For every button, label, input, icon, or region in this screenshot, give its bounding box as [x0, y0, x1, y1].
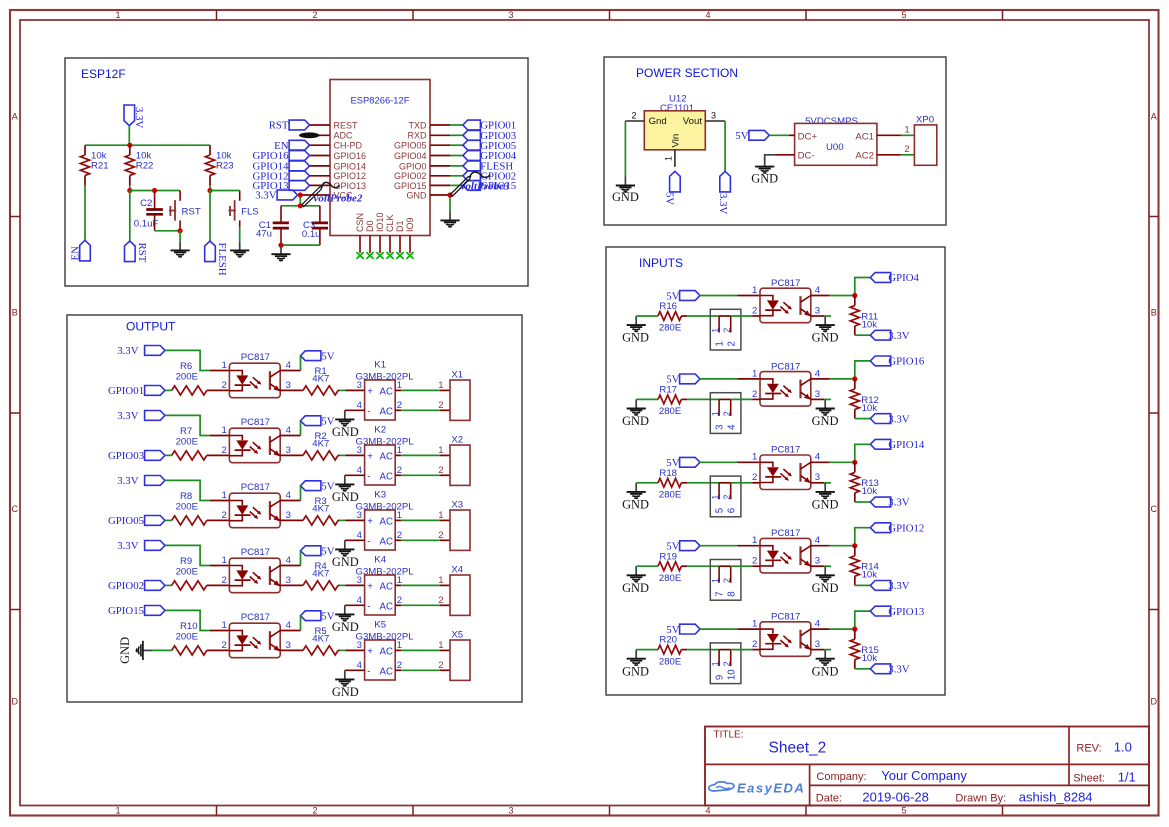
svg-text:X4: X4: [451, 564, 463, 575]
wire R21 to EN: [84, 186, 86, 241]
net flag 3.3V top: [124, 105, 135, 126]
connector X2: [438, 434, 470, 485]
svg-text:4: 4: [727, 424, 738, 430]
wire GPIO02 to R: [165, 584, 172, 586]
wire Vout: [724, 121, 726, 171]
svg-text:PC817: PC817: [241, 612, 270, 623]
svg-text:X1: X1: [451, 369, 463, 380]
svg-text:2: 2: [397, 595, 402, 606]
net flag FLESH: [205, 241, 216, 262]
wire cap rail bottom: [281, 244, 320, 246]
wire GPIO15 to opto pin1: [165, 610, 210, 630]
resistor R22 10k: [125, 145, 153, 185]
wire R to relay: [338, 649, 340, 651]
svg-text:AC: AC: [380, 471, 393, 482]
net flag GPIO02: [145, 581, 165, 591]
svg-text:GND: GND: [812, 331, 839, 345]
resistor R20 280E: [658, 645, 681, 654]
wire gnd to R: [636, 315, 658, 317]
resistor R16 280E: [658, 312, 681, 321]
svg-text:4: 4: [357, 595, 363, 606]
svg-text:Drawn By:: Drawn By:: [955, 793, 1006, 805]
no-connect X pin 390: [386, 252, 393, 259]
wire DC- to gnd: [775, 154, 795, 156]
optocoupler PC817 inrow2: [760, 361, 811, 406]
svg-text:10k: 10k: [862, 653, 878, 664]
svg-text:GND: GND: [812, 498, 839, 512]
svg-text:2: 2: [722, 411, 732, 416]
connector P3 pins 5/6: [710, 476, 741, 517]
svg-text:D1: D1: [395, 220, 405, 232]
wire pin3 to R5: [280, 649, 303, 651]
resistor R11 10k: [850, 296, 878, 336]
svg-text:GPIO15: GPIO15: [394, 181, 427, 191]
svg-text:K4: K4: [374, 555, 386, 566]
svg-text:1: 1: [752, 368, 757, 379]
svg-text:2: 2: [221, 380, 226, 391]
svg-text:4K7: 4K7: [312, 374, 329, 385]
net flag 3.3V in: [870, 664, 890, 674]
wire to flag GPIO03: [430, 134, 450, 136]
ground chip: [449, 211, 451, 220]
svg-text:GPIO15: GPIO15: [108, 605, 144, 617]
svg-text:3: 3: [357, 640, 362, 651]
svg-text:K1: K1: [374, 360, 386, 371]
svg-text:+: +: [367, 386, 373, 397]
wire 5V to opto pin1: [700, 378, 738, 380]
net flag GPIO01: [463, 120, 481, 130]
svg-text:3: 3: [357, 445, 362, 456]
resistor R21 10k: [80, 145, 108, 185]
junction RST btn: [178, 228, 183, 233]
junction C2: [152, 188, 157, 193]
wire relay pin1 to X: [395, 519, 401, 521]
connector P2 pins 3/4: [710, 393, 741, 434]
connector X1: [438, 369, 470, 420]
svg-text:2: 2: [722, 578, 732, 583]
svg-text:R20: R20: [659, 635, 677, 646]
net flag GPIO01: [145, 386, 165, 396]
wire connector to pin2: [719, 565, 731, 567]
svg-text:2: 2: [752, 639, 757, 650]
net flag 3.3V row3: [145, 476, 165, 486]
wire rail: [85, 144, 210, 146]
net flag 3.3V in: [870, 414, 890, 424]
wire relay pin1 to X: [395, 389, 401, 391]
wire pin stub GPIO14: [310, 165, 331, 167]
svg-text:+: +: [367, 516, 373, 527]
svg-text:2: 2: [438, 465, 443, 476]
net flag 3.3V row4: [145, 541, 165, 551]
net flag 5V row4: [301, 546, 321, 556]
svg-text:CH-PD: CH-PD: [334, 141, 363, 151]
svg-text:3: 3: [286, 510, 291, 521]
svg-text:2: 2: [221, 640, 226, 651]
wire to flag GPIO01: [430, 124, 450, 126]
wire GND pin: [430, 194, 450, 196]
svg-text:1: 1: [115, 806, 120, 816]
svg-text:7: 7: [714, 591, 725, 596]
regulator U12 CE1101: [625, 94, 725, 167]
wire 5V to pin4: [300, 551, 302, 566]
resistor R1 4K7: [303, 386, 338, 395]
svg-text:2: 2: [438, 595, 443, 606]
svg-text:GPIO16: GPIO16: [334, 151, 367, 161]
relay K3 G3MB-202PL: [356, 490, 415, 550]
svg-text:GND: GND: [622, 581, 649, 595]
svg-text:D0: D0: [365, 220, 375, 232]
svg-text:AC2: AC2: [855, 151, 874, 162]
no-connect X pin 380: [376, 252, 383, 259]
svg-text:4: 4: [357, 660, 363, 671]
svg-text:Sheet_2: Sheet_2: [769, 740, 827, 757]
svg-text:1: 1: [711, 411, 721, 416]
net flag 3.3V in: [870, 330, 890, 340]
svg-text:U00: U00: [826, 142, 844, 153]
svg-text:10k: 10k: [862, 486, 878, 497]
wire FLESH flag: [209, 191, 211, 242]
svg-text:GPIO14: GPIO14: [334, 161, 367, 171]
wire GPIO03 to R: [165, 454, 172, 456]
ground R17 left: [635, 399, 637, 408]
svg-text:1: 1: [752, 619, 757, 630]
ground K1: [344, 410, 346, 419]
wire R to relay: [338, 584, 340, 586]
junction pin4: [852, 460, 857, 465]
svg-text:1: 1: [221, 360, 226, 371]
resistor R3 4K7: [303, 516, 338, 525]
svg-text:GND: GND: [332, 685, 359, 699]
svg-text:R19: R19: [659, 551, 677, 562]
no-connect X pin 370: [366, 252, 373, 259]
svg-text:280E: 280E: [659, 406, 681, 417]
net flag GPIO14: [870, 439, 890, 449]
svg-text:5V: 5V: [664, 192, 676, 205]
svg-text:5VDCSMPS: 5VDCSMPS: [805, 116, 858, 127]
svg-text:DC-: DC-: [798, 151, 815, 162]
optocoupler PC817 inrow3: [760, 445, 811, 490]
wire pin stub GPIO16: [310, 155, 331, 157]
svg-text:6: 6: [727, 508, 738, 513]
svg-text:Vin: Vin: [671, 134, 682, 148]
svg-text:1: 1: [711, 578, 721, 583]
section box OUTPUT: [67, 315, 522, 702]
optocoupler PC817 row5: [229, 612, 280, 658]
net flag 3.3V row1: [145, 346, 165, 356]
svg-text:PC817: PC817: [771, 528, 800, 539]
svg-text:TITLE:: TITLE:: [714, 730, 744, 741]
net flag GPIO03: [463, 130, 481, 140]
wire AC2: [877, 154, 901, 156]
svg-text:AC: AC: [380, 646, 393, 657]
wire relay pin4 to gnd: [345, 669, 365, 671]
wire R to 3.3V: [855, 668, 871, 670]
wire to GPIO4 flag: [855, 278, 871, 296]
svg-text:1: 1: [438, 445, 443, 456]
relay K5 G3MB-202PL: [356, 620, 415, 680]
svg-text:4: 4: [286, 555, 292, 566]
ground pin3: [824, 650, 826, 659]
svg-text:+: +: [367, 581, 373, 592]
svg-text:GPIO12: GPIO12: [334, 171, 367, 181]
svg-text:D: D: [1151, 697, 1158, 707]
wire R23 node: [209, 186, 211, 191]
svg-text:280E: 280E: [659, 573, 681, 584]
svg-text:Sheet:: Sheet:: [1073, 773, 1105, 785]
svg-text:3.3V: 3.3V: [117, 475, 138, 487]
wire relay pin4 to gnd: [345, 474, 365, 476]
svg-text:GND: GND: [812, 414, 839, 428]
wire gnd to R: [636, 398, 658, 400]
svg-text:FLS: FLS: [241, 207, 259, 218]
svg-text:3.3V: 3.3V: [255, 190, 276, 202]
svg-text:4: 4: [286, 620, 292, 631]
svg-text:2: 2: [631, 111, 636, 121]
svg-text:voltProbe2: voltProbe2: [314, 193, 363, 205]
svg-text:2: 2: [752, 305, 757, 316]
ground R20 left: [635, 650, 637, 659]
ground pin3: [824, 566, 826, 575]
net flag GPIO14: [289, 161, 309, 171]
wire 3.3V to opto pin1: [165, 415, 210, 435]
net flag GPIO04: [463, 151, 481, 161]
svg-text:1: 1: [438, 640, 443, 651]
ground U12 GND: [624, 176, 626, 185]
svg-text:1: 1: [221, 555, 226, 566]
svg-text:1: 1: [752, 285, 757, 296]
svg-text:200E: 200E: [176, 502, 198, 513]
svg-text:GPIO0: GPIO0: [399, 161, 427, 171]
svg-text:4: 4: [815, 619, 821, 630]
svg-text:3: 3: [286, 575, 291, 586]
svg-text:CSN: CSN: [355, 213, 365, 232]
svg-text:-: -: [367, 536, 370, 547]
svg-text:1: 1: [397, 640, 402, 651]
wire connector to pin2: [719, 398, 731, 400]
svg-text:X5: X5: [451, 629, 463, 640]
svg-text:4K7: 4K7: [312, 569, 329, 580]
svg-text:1: 1: [752, 535, 757, 546]
push button FLS: [229, 191, 259, 227]
svg-text:1/1: 1/1: [1118, 770, 1136, 785]
svg-text:3: 3: [357, 575, 362, 586]
wire C2 bottom: [155, 230, 181, 232]
junction cap gnd: [278, 243, 283, 248]
wire R to relay: [338, 389, 340, 391]
ground R19 left: [635, 566, 637, 575]
svg-text:3: 3: [508, 806, 513, 816]
wire R to connector: [681, 398, 687, 400]
svg-text:GPIO05: GPIO05: [394, 141, 427, 151]
wire to flag GPIO05: [430, 144, 450, 146]
relay K1 G3MB-202PL: [356, 360, 415, 420]
net flag 5V (Vin): [670, 171, 681, 192]
no-connect X pin 400: [396, 252, 403, 259]
svg-text:3: 3: [286, 380, 291, 391]
svg-text:OUTPUT: OUTPUT: [126, 319, 176, 333]
svg-text:GND: GND: [812, 581, 839, 595]
svg-text:EN: EN: [70, 246, 82, 261]
svg-text:2: 2: [722, 328, 732, 333]
svg-text:GPIO02: GPIO02: [108, 580, 144, 592]
wire pin4: [811, 378, 830, 380]
wire to GPIO14 flag: [855, 444, 871, 462]
wire RST flag: [129, 191, 131, 242]
capacitor C2 0.1uF: [134, 191, 163, 231]
svg-text:ashish_8284: ashish_8284: [1019, 790, 1093, 805]
svg-text:1: 1: [438, 380, 443, 391]
wire pin3 to R3: [280, 519, 303, 521]
svg-text:PC817: PC817: [771, 361, 800, 372]
svg-text:5: 5: [714, 508, 725, 513]
connector X3: [438, 499, 470, 550]
wire gnd to R: [636, 565, 658, 567]
svg-text:5V: 5V: [735, 130, 748, 142]
wire pin3 gnd: [811, 482, 824, 484]
net flag 3.3V in: [870, 497, 890, 507]
svg-text:2: 2: [904, 144, 909, 155]
svg-text:2: 2: [438, 660, 443, 671]
wire 3.3V to opto pin1: [165, 350, 210, 370]
svg-text:1: 1: [397, 575, 402, 586]
svg-text:C2: C2: [140, 198, 152, 209]
svg-text:GPIO12: GPIO12: [888, 522, 924, 534]
wire 5V to DC+: [769, 134, 789, 136]
svg-text:2: 2: [221, 510, 226, 521]
ground RST: [179, 241, 181, 250]
wire pin4: [811, 461, 830, 463]
svg-text:R21: R21: [91, 160, 109, 171]
net flag GPIO16: [289, 151, 309, 161]
resistor R8 200E: [172, 516, 207, 525]
wire cap rail top: [281, 205, 320, 207]
resistor R10 200E: [172, 646, 207, 655]
svg-text:2: 2: [752, 556, 757, 567]
wire pin3 to R4: [280, 584, 303, 586]
wire R to opto pin2: [207, 454, 230, 456]
svg-text:1: 1: [221, 425, 226, 436]
resistor R14 10k: [850, 546, 879, 586]
wire R to 3.3V: [855, 418, 871, 420]
ground K3: [344, 540, 346, 549]
junction rail: [127, 143, 132, 148]
connector P4 pins 7/8: [710, 560, 741, 601]
svg-text:4: 4: [815, 535, 821, 546]
svg-text:9: 9: [714, 675, 725, 680]
svg-text:3: 3: [711, 111, 716, 121]
svg-text:2: 2: [722, 661, 732, 666]
svg-text:GND: GND: [118, 637, 132, 664]
net flag GPIO16: [870, 356, 890, 366]
svg-text:2: 2: [752, 472, 757, 483]
svg-text:5V: 5V: [321, 480, 334, 492]
resistor R6 200E: [172, 386, 207, 395]
relay K2 G3MB-202PL: [356, 425, 415, 485]
net flag GPIO05: [463, 140, 481, 150]
section box POWER SECTION: [604, 57, 946, 225]
svg-text:GPIO16: GPIO16: [888, 356, 925, 368]
svg-text:1: 1: [438, 510, 443, 521]
junction pin4: [852, 543, 857, 548]
net flag FLESH: [463, 161, 481, 171]
wire R to connector: [681, 649, 687, 651]
svg-text:2: 2: [722, 495, 732, 500]
svg-text:4: 4: [286, 490, 292, 501]
svg-text:RST: RST: [182, 207, 201, 218]
svg-text:POWER SECTION: POWER SECTION: [636, 66, 738, 80]
svg-text:RXD: RXD: [407, 131, 427, 141]
push button RST: [169, 191, 201, 231]
svg-text:A: A: [12, 112, 18, 122]
net flag GPIO05: [145, 516, 165, 526]
net flag EN: [289, 140, 309, 150]
wire 3.3V to opto pin1: [165, 545, 210, 565]
connector XP0: [904, 114, 936, 165]
junction R22: [127, 188, 132, 193]
no-connect X pin 360: [356, 252, 363, 259]
junction gnd: [447, 192, 452, 197]
svg-text:GPIO02: GPIO02: [394, 171, 427, 181]
svg-text:3.3V: 3.3V: [888, 664, 909, 676]
resistor R18 280E: [658, 478, 681, 487]
svg-text:R9: R9: [180, 556, 192, 567]
wire 5V to opto pin1: [700, 295, 738, 297]
optocoupler PC817 row4: [229, 547, 280, 593]
svg-text:1.0: 1.0: [1114, 740, 1132, 755]
net flag GPIO02: [463, 171, 481, 181]
connector X4: [438, 564, 470, 615]
svg-text:2: 2: [727, 341, 738, 346]
svg-text:280E: 280E: [659, 656, 681, 667]
svg-text:GPIO4: GPIO4: [888, 272, 919, 284]
ground pin3: [824, 399, 826, 408]
svg-text:GPIO03: GPIO03: [108, 450, 144, 462]
connector P1 pins 1/2: [710, 309, 741, 350]
svg-text:1: 1: [221, 490, 226, 501]
svg-text:10k: 10k: [862, 319, 878, 330]
wire gnd to R: [636, 482, 658, 484]
svg-text:3.3V: 3.3V: [888, 580, 909, 592]
svg-text:1: 1: [904, 124, 909, 135]
svg-text:GPIO13: GPIO13: [888, 606, 924, 618]
connector P5 pins 9/10: [710, 643, 741, 684]
svg-text:200E: 200E: [176, 372, 198, 383]
net flag EN: [80, 240, 91, 261]
svg-text:3: 3: [286, 445, 291, 456]
svg-text:CLK: CLK: [385, 214, 395, 232]
svg-text:1: 1: [711, 661, 721, 666]
section box INPUTS: [606, 247, 945, 695]
wire pin4: [811, 295, 830, 297]
wire to GPIO13 flag: [855, 611, 871, 629]
wire U12 gnd: [624, 121, 626, 176]
svg-text:voltProbe3: voltProbe3: [461, 181, 510, 193]
wire 5V to pin4: [300, 421, 302, 436]
svg-text:1: 1: [115, 10, 120, 20]
svg-text:3.3V: 3.3V: [133, 107, 145, 128]
svg-text:TXD: TXD: [409, 120, 428, 130]
wire to gnd: [179, 231, 181, 242]
svg-text:ESP8266-12F: ESP8266-12F: [351, 95, 410, 106]
svg-text:B: B: [1151, 308, 1157, 318]
wire R to 3.3V: [855, 334, 871, 336]
svg-text:R17: R17: [659, 385, 677, 396]
probe voltProbe3: [451, 177, 471, 197]
net flag 3.3V (Vout): [720, 171, 731, 192]
svg-text:5V: 5V: [321, 350, 334, 362]
svg-text:1: 1: [752, 452, 757, 463]
svg-text:3.3V: 3.3V: [888, 330, 909, 342]
